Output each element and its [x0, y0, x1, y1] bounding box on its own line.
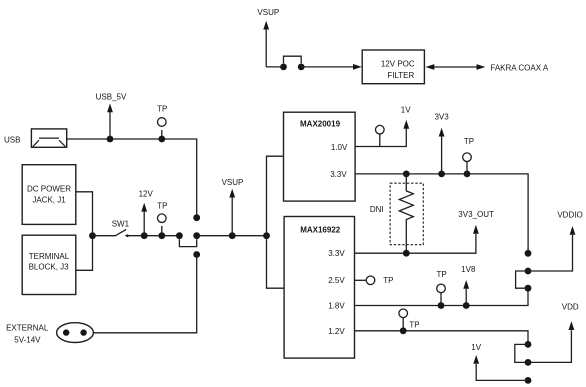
svg-text:DNI: DNI	[370, 205, 384, 214]
node 1V8	[465, 289, 467, 306]
jumper JU1 shunt	[179, 239, 196, 246]
wire POC filter to FAKRA (bidirectional)	[433, 66, 478, 68]
jumper JU2 pin left	[280, 64, 287, 71]
svg-text:SW1: SW1	[112, 219, 130, 228]
svg-text:USB: USB	[4, 135, 20, 144]
wire 3.3V to 3V3_OUT	[355, 234, 476, 253]
svg-text:TP: TP	[464, 137, 474, 146]
junction TP (1.8V)	[438, 302, 445, 309]
svg-text:VSUP: VSUP	[222, 178, 244, 187]
test point TP (USB_5V)	[161, 130, 163, 139]
test point TP (2.5V)	[355, 279, 367, 281]
test point TP (1V)	[379, 134, 381, 147]
wire external supply to selector	[93, 255, 196, 333]
jumper JU3 shunt	[516, 271, 528, 288]
svg-text:VDD: VDD	[562, 303, 579, 312]
junction DNI resistor bottom	[403, 250, 410, 257]
svg-text:EXTERNAL: EXTERNAL	[6, 323, 49, 332]
svg-text:2.5V: 2.5V	[328, 276, 345, 285]
node VDDIO	[570, 226, 576, 235]
wire SW1 to selector	[128, 235, 180, 237]
svg-text:TP: TP	[157, 105, 167, 114]
svg-text:VSUP: VSUP	[257, 8, 279, 17]
regulator U2 MAX16922	[284, 217, 354, 359]
node 1V	[473, 355, 479, 364]
junction VSUP	[229, 232, 236, 239]
junction J1/J3	[89, 232, 96, 239]
svg-text:1V8: 1V8	[461, 265, 476, 274]
connector external supply plug	[57, 323, 94, 343]
svg-text:TP: TP	[409, 321, 419, 330]
test point TP (12V)	[161, 226, 163, 236]
svg-text:5V-14V: 5V-14V	[14, 335, 41, 344]
resistor DNI bypass	[399, 174, 413, 253]
switch SW1	[115, 229, 126, 236]
jumper JU1 pin top (USB_5V in)	[193, 214, 200, 221]
wire USB 5V to input selector	[67, 139, 197, 215]
wire VSUP to POC jumper	[266, 66, 283, 68]
node VSUP (POC feed)	[265, 30, 267, 67]
junction DNI resistor top	[403, 171, 410, 178]
svg-text:FAKRA COAX A: FAKRA COAX A	[490, 63, 548, 72]
svg-text:1V: 1V	[401, 106, 411, 115]
svg-text:1.8V: 1.8V	[328, 302, 345, 311]
svg-text:3V3: 3V3	[434, 112, 449, 121]
test point TP (3V3)	[466, 162, 468, 174]
connector J2 USB	[31, 129, 66, 147]
jumper JU2 shunt	[284, 56, 302, 63]
junction 1V8	[463, 302, 470, 309]
wire 1.0V to 1V node	[355, 129, 406, 147]
junction TP (3V3)	[464, 171, 471, 178]
svg-text:USB_5V: USB_5V	[96, 93, 127, 102]
svg-text:1.2V: 1.2V	[328, 327, 345, 336]
svg-text:12V: 12V	[139, 190, 154, 199]
wire VSUP trunk to regulators	[267, 156, 285, 288]
regulator U1 MAX20019	[284, 112, 356, 201]
svg-text:BLOCK, J3: BLOCK, J3	[29, 263, 70, 272]
node VDD	[569, 321, 575, 330]
svg-text:1V: 1V	[471, 343, 481, 352]
jumper JU3 pin middle (VDDIO out)	[525, 268, 532, 275]
svg-text:TP: TP	[436, 270, 446, 279]
jumper JU4 pin top (1.2V)	[525, 341, 532, 348]
svg-text:JACK, J1: JACK, J1	[32, 196, 66, 205]
svg-text:3.3V: 3.3V	[330, 170, 347, 179]
wire J3 to switch rail	[76, 236, 93, 271]
junction USB_5V	[107, 136, 114, 143]
svg-text:3V3_OUT: 3V3_OUT	[458, 210, 494, 219]
jumper JU3 pin bottom (1.8V)	[525, 285, 532, 292]
svg-text:DC POWER: DC POWER	[27, 185, 71, 194]
wire VDD out	[528, 330, 571, 362]
jumper JU2 pin right	[298, 64, 305, 71]
DNI boundary dashed box	[390, 183, 423, 245]
wire J1 to switch rail	[76, 192, 93, 236]
jumper JU3 pin top (3.3V)	[525, 250, 532, 257]
node 3V3	[441, 137, 443, 174]
junction regulator feed	[263, 232, 270, 239]
node USB_5V	[109, 112, 111, 139]
svg-text:MAX20019: MAX20019	[300, 120, 341, 129]
node 3V3_OUT	[473, 225, 479, 234]
test point TP (1.8V)	[440, 293, 442, 306]
wire VDDIO out	[528, 235, 573, 271]
wire selector to VSUP rail	[197, 235, 267, 237]
wire 1V to VDD selector	[476, 364, 528, 380]
wire rail to SW1	[93, 235, 116, 237]
jumper JU1 pin center (VSUP out)	[193, 232, 200, 239]
node 12V	[143, 212, 145, 236]
svg-text:MAX16922: MAX16922	[300, 226, 341, 235]
junction 3V3	[438, 171, 445, 178]
svg-text:TERMINAL: TERMINAL	[29, 252, 70, 261]
wire 1.8V to VDDIO selector	[355, 288, 529, 305]
svg-text:TP: TP	[383, 276, 393, 285]
svg-text:TP: TP	[157, 202, 167, 211]
connector J3 terminal block	[22, 235, 76, 294]
jumper JU4 pin middle (VDD out)	[525, 359, 532, 366]
wire 1.2V to VDD selector	[355, 331, 529, 345]
svg-text:1.0V: 1.0V	[331, 143, 348, 152]
test point TP (1.2V)	[402, 318, 404, 331]
jumper JU1 pin left (12V in)	[176, 232, 183, 239]
svg-text:12V POC: 12V POC	[381, 60, 415, 69]
svg-text:FILTER: FILTER	[387, 71, 414, 80]
jumper JU1 pin bottom (external in)	[193, 251, 200, 258]
wire 3.3V to VDDIO selector	[355, 174, 528, 251]
svg-text:VDDIO: VDDIO	[557, 211, 582, 220]
svg-text:3.3V: 3.3V	[328, 249, 345, 258]
node VSUP	[231, 198, 233, 236]
junction 12V	[141, 232, 148, 239]
node 1V	[403, 120, 409, 129]
connector J1 DC power jack	[22, 165, 76, 225]
jumper JU4 shunt	[515, 344, 528, 362]
jumper JU4 pin bottom (1V)	[525, 377, 532, 384]
wire jumper to POC filter	[301, 66, 353, 68]
junction TP (1.2V)	[400, 327, 407, 334]
filter 12V POC FILTER	[362, 50, 424, 84]
